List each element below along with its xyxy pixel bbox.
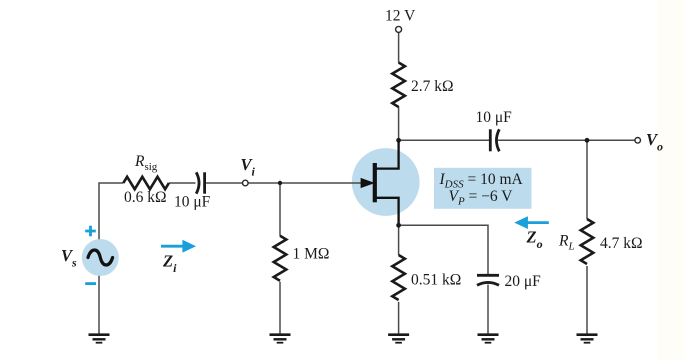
wire: gate node down to R_G top (279, 183, 281, 236)
JFET drain lead (376, 141, 399, 169)
wire: Vs bottom to ground (98, 276, 100, 334)
arrow Z_o (514, 216, 549, 229)
terminal Vo (635, 138, 641, 144)
arrow Z_i (161, 240, 196, 253)
JFET gate arrowhead (361, 179, 373, 188)
JFET highlight circle (352, 148, 420, 216)
wire: output cap to Vo terminal (498, 139, 635, 141)
JFET source lead (376, 198, 399, 225)
svg-text:20 μF: 20 μF (505, 273, 542, 290)
wire: load node down to R_L top (586, 140, 588, 219)
node: gate junction (278, 181, 282, 185)
wire: R_S bottom to ground (398, 302, 400, 334)
svg-text:0.6 kΩ: 0.6 kΩ (124, 189, 167, 206)
svg-text:10 μF: 10 μF (476, 109, 513, 126)
ground: below C_S (478, 335, 499, 343)
resistor R_D 2.7 kOhm (392, 63, 405, 108)
svg-text:12 V: 12 V (385, 8, 416, 25)
svg-text:1 MΩ: 1 MΩ (293, 246, 330, 263)
resistor R_L 4.7 kOhm (581, 219, 594, 264)
capacitor C1 input 10 uF (196, 172, 204, 193)
node: source junction (396, 223, 401, 228)
capacitor C2 output 10 uF (490, 129, 499, 151)
svg-text:0.51 kΩ: 0.51 kΩ (411, 272, 461, 289)
source Vs highlight circle (82, 239, 119, 276)
plus sign (85, 226, 96, 237)
wire: bypass cap bottom to ground (487, 285, 489, 335)
resistor R_sig 0.6 kOhm (123, 177, 169, 189)
page-edge tint strip (657, 0, 684, 360)
source Vs sine symbol (88, 250, 113, 265)
wire: R_G bottom to ground (279, 282, 281, 334)
ground: below R_S (388, 335, 409, 343)
wire: input corner at Vs up and right to R_sig (99, 183, 123, 239)
node: load junction (585, 138, 590, 143)
minus sign (85, 282, 96, 285)
svg-text:10 μF: 10 μF (174, 193, 211, 210)
wire: drain node right to output coupling cap (399, 139, 490, 141)
wire: input cap to Vi terminal (206, 182, 243, 184)
svg-text:4.7 kΩ: 4.7 kΩ (600, 235, 643, 252)
ground: below R_L (577, 335, 598, 343)
terminal: 12 V supply (396, 26, 402, 32)
resistor R_S 0.51 kOhm (392, 255, 405, 300)
ground: below R_G (270, 335, 291, 343)
JFET channel bar (373, 163, 377, 202)
wire: R_sig to input cap (169, 182, 196, 184)
JFET Q1 (361, 141, 399, 225)
wire: source node down to R_S top (398, 225, 400, 255)
wire: R_L bottom to ground (586, 266, 588, 334)
resistor R_G 1 MOhm (274, 236, 287, 281)
wire: R_D bottom to drain node (398, 107, 400, 141)
ground: below Vs (89, 335, 110, 343)
wire: source node right and down to bypass cap (399, 225, 488, 274)
node: drain junction (396, 138, 401, 143)
wire: Vi terminal to gate (248, 182, 363, 184)
terminal Vi (243, 180, 249, 186)
svg-text:2.7 kΩ: 2.7 kΩ (411, 78, 454, 95)
capacitor C_S 20 uF bypass (477, 275, 499, 285)
parameter box I_DSS / V_P (434, 168, 532, 209)
wire: 12V terminal down to R_D top (398, 32, 400, 63)
